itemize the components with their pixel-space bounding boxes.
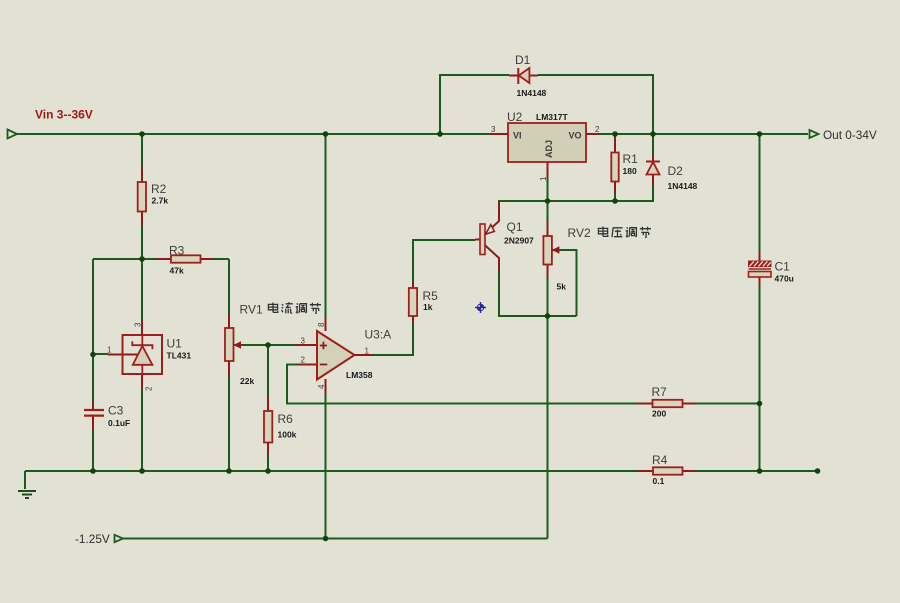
svg-text:R6: R6	[278, 412, 294, 426]
svg-text:R3: R3	[169, 244, 185, 258]
op-amp U3:A LM358	[296, 317, 391, 394]
svg-text:VO: VO	[569, 131, 582, 141]
svg-text:Q1: Q1	[507, 220, 523, 234]
wire RV2 top	[547, 201, 549, 221]
potentiometer RV1	[225, 303, 263, 387]
svg-text:1: 1	[365, 347, 370, 356]
node U1 pin1	[90, 352, 96, 358]
wire ground stub	[24, 471, 26, 489]
wire R3 rail left	[93, 258, 157, 260]
wire C1 bottom to ground	[759, 286, 761, 471]
svg-text:U1: U1	[167, 337, 183, 351]
diode D2 1N4148	[646, 155, 698, 191]
svg-text:2N2907: 2N2907	[504, 236, 534, 246]
wire C1 top	[759, 134, 761, 252]
svg-text:5k: 5k	[557, 282, 567, 292]
wire RV1 bottom	[228, 375, 230, 471]
wire main input rail	[17, 133, 490, 135]
svg-text:200: 200	[652, 409, 666, 419]
wire op-amp pin8 supply	[325, 134, 327, 317]
svg-text:1N4148: 1N4148	[668, 181, 698, 191]
svg-text:C1: C1	[775, 260, 791, 274]
wire RV2 wiper loop	[560, 250, 577, 316]
svg-text:ADJ: ADJ	[544, 140, 554, 158]
wire R6 bottom	[267, 456, 269, 471]
svg-text:R7: R7	[652, 385, 668, 399]
wire left vertical to C3	[92, 259, 94, 402]
capacitor C1 470u	[749, 252, 794, 286]
svg-text:D1: D1	[515, 53, 531, 67]
svg-text:U2: U2	[507, 110, 523, 124]
node D1 left	[437, 131, 443, 137]
node R7 right	[757, 401, 763, 407]
node D2 top	[650, 131, 656, 137]
svg-text:1k: 1k	[423, 302, 433, 312]
transistor Q1 2N2907	[475, 202, 534, 273]
svg-text:-1.25V: -1.25V	[75, 532, 110, 546]
node R2 top	[139, 131, 145, 137]
node R1 bottom	[612, 198, 618, 204]
wire op-amp output to R5	[374, 323, 413, 356]
node gnd U1	[139, 468, 145, 474]
svg-text:U3:A: U3:A	[365, 328, 392, 342]
IC U2 LM317T	[490, 110, 600, 201]
resistor R7	[637, 385, 697, 419]
node RV2 bottom	[545, 313, 551, 319]
node -1.25V terminal	[75, 532, 123, 546]
svg-text:RV1: RV1	[240, 303, 263, 317]
svg-text:4: 4	[317, 384, 326, 389]
svg-text:2: 2	[145, 386, 154, 391]
node RV1 wiper	[265, 342, 271, 348]
node C1 top	[757, 131, 763, 137]
svg-text:R4: R4	[652, 453, 668, 467]
node pin4	[323, 536, 329, 542]
svg-text:LM317T: LM317T	[536, 112, 568, 122]
wire node to op-amp pin3	[268, 344, 296, 346]
wire R5 to Q1 base	[413, 240, 475, 282]
wire R2 top	[141, 134, 143, 168]
svg-text:0.1: 0.1	[653, 476, 665, 486]
node ADJ RV2	[545, 198, 551, 204]
node gnd R6	[265, 468, 271, 474]
svg-text:R1: R1	[623, 152, 639, 166]
wire R1 bottom green	[614, 193, 616, 201]
svg-text:2: 2	[595, 125, 600, 134]
output terminal arrow	[810, 128, 877, 142]
wire VO to output	[600, 133, 808, 135]
wire RV2 node to -1.25V rail	[547, 316, 549, 539]
wire R2 bottom	[141, 225, 143, 259]
wire U1 pin3 vertical	[141, 259, 143, 320]
wire RV1 wiper to node	[242, 344, 268, 346]
potentiometer RV2	[543, 221, 591, 292]
diode D1 1N4148	[509, 53, 547, 98]
node rail end	[815, 468, 821, 474]
svg-text:C3: C3	[108, 404, 124, 418]
svg-text:470u: 470u	[775, 274, 794, 284]
resistor R6	[264, 397, 297, 456]
svg-text:R2: R2	[151, 182, 167, 196]
wire RV2 bottom	[547, 278, 549, 316]
svg-text:1N4148: 1N4148	[517, 88, 547, 98]
node gnd C3	[90, 468, 96, 474]
wire U1 pin2 to ground	[141, 389, 143, 471]
wire ground rail right of R4	[697, 470, 818, 472]
wire -1.25V rail	[123, 538, 548, 540]
input terminal arrow	[8, 130, 18, 139]
svg-text:LM358: LM358	[346, 370, 373, 380]
svg-text:Out 0-34V: Out 0-34V	[823, 128, 877, 142]
wire ground rail	[25, 470, 637, 472]
wire C3 to ground rail	[92, 429, 94, 471]
resistor R1	[611, 136, 638, 193]
RV2 chinese label 电压调节	[598, 227, 651, 238]
svg-text:47k: 47k	[170, 266, 184, 276]
RV1 chinese label 电流调节	[268, 302, 321, 313]
ground	[18, 491, 36, 498]
svg-text:1: 1	[539, 176, 548, 181]
svg-text:1: 1	[107, 346, 112, 355]
IC U1 TL431	[107, 320, 191, 391]
svg-text:3: 3	[134, 322, 143, 327]
wire R3 rail right	[214, 258, 229, 260]
svg-text:0.1uF: 0.1uF	[108, 418, 130, 428]
svg-text:2.7k: 2.7k	[152, 196, 169, 206]
wire D1 loop right to D2	[538, 75, 653, 155]
wire RV1 top	[228, 259, 230, 314]
wire D1 loop left vertical	[440, 75, 509, 134]
node op-amp supply	[323, 131, 329, 137]
svg-text:8: 8	[317, 322, 326, 327]
wire R6 top	[267, 345, 269, 397]
wire R7 to output node	[697, 403, 760, 405]
svg-text:22k: 22k	[240, 376, 254, 386]
svg-text:Vin 3--36V: Vin 3--36V	[35, 108, 93, 122]
wire ADJ rail	[499, 185, 653, 219]
origin marker	[475, 302, 486, 313]
svg-text:2: 2	[301, 356, 306, 365]
svg-text:R5: R5	[423, 289, 439, 303]
wire U1 pin1	[93, 353, 108, 355]
node R2 bottom	[139, 256, 145, 262]
wire op-amp pin4 to -1.25V	[325, 394, 327, 539]
node R1 top	[612, 131, 618, 137]
svg-text:180: 180	[623, 166, 637, 176]
node gnd RV1	[226, 468, 232, 474]
svg-text:VI: VI	[513, 131, 522, 141]
svg-text:TL431: TL431	[167, 351, 192, 361]
resistor R4	[637, 453, 697, 486]
svg-text:D2: D2	[668, 164, 684, 178]
wire op-amp pin2 feedback	[287, 365, 637, 404]
wire Q1 collector down	[499, 272, 577, 316]
resistor R3	[157, 244, 214, 276]
svg-text:RV2: RV2	[568, 226, 591, 240]
capacitor C3	[84, 402, 130, 429]
svg-text:3: 3	[301, 337, 306, 346]
resistor R5	[409, 282, 438, 323]
svg-text:3: 3	[491, 125, 496, 134]
svg-text:100k: 100k	[278, 430, 297, 440]
node gnd C1	[757, 468, 763, 474]
resistor R2	[138, 168, 169, 225]
